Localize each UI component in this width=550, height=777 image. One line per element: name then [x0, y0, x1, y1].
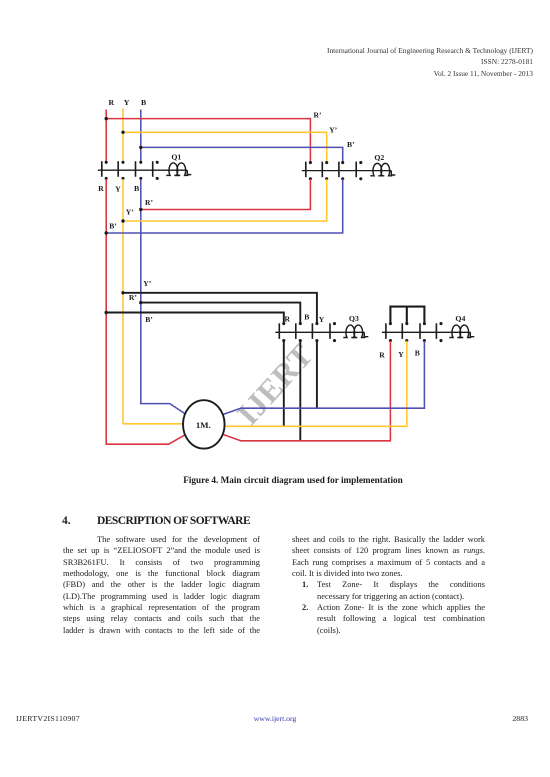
contactor Q3: linkage line [275, 331, 364, 333]
svg-text:R’: R’ [129, 293, 137, 302]
junction Y top [121, 131, 124, 134]
svg-text:Y: Y [124, 98, 130, 107]
contact terminal dot lower Q2 @x=342.7 [341, 177, 344, 180]
contactor Q2: contact bar 3 [338, 162, 340, 178]
contact terminal dot lower Q2 @x=360.8 [359, 177, 362, 180]
svg-text:B’: B’ [145, 315, 153, 324]
coil Q4 end terminal step [470, 332, 474, 336]
contactor Q1: contact bar 2 [117, 161, 119, 177]
svg-text:R: R [379, 351, 385, 360]
junction R top [105, 117, 108, 120]
contact terminal dot lower Q1 @x=123.0 [121, 177, 124, 180]
contact terminal dot upper Q2 @x=342.7 [341, 161, 344, 164]
right column paragraph [292, 534, 485, 636]
svg-text:R: R [285, 314, 291, 323]
figure caption [0, 475, 550, 485]
contactor Q1: linkage line [98, 169, 188, 171]
svg-text:Y: Y [115, 184, 121, 193]
contact terminal dot upper Q3 @x=316.9 [315, 322, 318, 325]
contact terminal dot upper Q3 @x=283.8 [282, 322, 285, 325]
coil Q3 [343, 325, 357, 337]
contactor Q1: contact bar 4 [152, 161, 154, 177]
wire B phase vertical upper [140, 110, 142, 162]
contact terminal dot upper Q2 @x=326.7 [325, 161, 328, 164]
left column paragraph [63, 534, 260, 636]
contact terminal dot lower Q2 @x=310.4 [309, 177, 312, 180]
junction B'' on R column [105, 311, 108, 314]
svg-text:B: B [141, 98, 146, 107]
svg-text:Q2: Q2 [374, 153, 384, 162]
svg-text:B’: B’ [109, 222, 117, 231]
header journal info [327, 45, 533, 81]
svg-text:B: B [415, 349, 420, 358]
svg-text:Q4: Q4 [455, 314, 465, 323]
svg-text:1M.: 1M. [196, 420, 211, 430]
contact terminal dot lower Q1 @x=140.8 [139, 177, 142, 180]
star-point bridge centre drop [406, 307, 408, 324]
contactor Q3: contact bar 2 [295, 323, 297, 339]
coil Q1 end terminal step [187, 170, 191, 174]
contactor Q3: contact bar 1 [278, 323, 280, 339]
contactor Q4: contact bar 3 [419, 323, 421, 339]
contactor Q1: contact bar 1 [101, 161, 103, 177]
coil Q2 [370, 163, 384, 175]
contact terminal dot upper Q1 @x=123.0 [121, 161, 124, 164]
svg-text:Y: Y [319, 315, 325, 324]
section heading [62, 515, 250, 527]
contact terminal dot upper Q4 @x=406.8 [405, 322, 408, 325]
contact terminal dot lower Q3 @x=334.5 [333, 339, 336, 342]
contact terminal dot upper Q2 @x=360.8 [359, 161, 362, 164]
contact terminal dot lower Q2 @x=326.7 [325, 177, 328, 180]
wire R column into motor [106, 434, 186, 444]
svg-text:IJERT: IJERT [229, 337, 320, 432]
contact terminal dot upper Q2 @x=310.4 [309, 161, 312, 164]
svg-text:R: R [98, 184, 104, 193]
junction R'' on B column [139, 301, 142, 304]
contact terminal dot upper Q3 @x=334.5 [333, 322, 336, 325]
wire B'' feeder from R column to Q3 [106, 313, 284, 324]
svg-text:Y: Y [398, 350, 404, 359]
wire Q3 pole2 to red motor line [299, 341, 301, 441]
contact terminal dot upper Q3 @x=300.3 [299, 322, 302, 325]
wire R from Q4 to motor [224, 341, 391, 441]
contact terminal dot upper Q4 @x=390.4 [389, 322, 392, 325]
contactor Q4: contact bar 1 [385, 323, 387, 339]
wire R to Q2 (R') [106, 119, 310, 162]
junction Y'' on Y column [121, 291, 124, 294]
coil Q1 [166, 163, 180, 175]
contact terminal dot lower Q4 @x=424.4 [423, 339, 426, 342]
contact terminal dot upper Q4 @x=424.4 [423, 322, 426, 325]
coil Q4 [449, 325, 463, 337]
contact terminal dot lower Q3 @x=300.3 [299, 339, 302, 342]
wire R'' feeder from B column to Q3 [141, 303, 300, 324]
contact terminal dot upper Q1 @x=140.8 [139, 161, 142, 164]
contact terminal dot upper Q1 @x=157.2 [156, 161, 159, 164]
footer [0, 713, 550, 715]
contact terminal dot lower Q1 @x=157.2 [156, 177, 159, 180]
contactor Q2: contact bar 1 [305, 162, 307, 178]
contactor Q4: linkage line [382, 331, 470, 333]
junction Y' on Y column [121, 219, 124, 222]
wire Q3 pole3 to blue motor line [316, 341, 318, 408]
svg-text:B’: B’ [347, 140, 355, 149]
wire B to Q2 (B') [141, 147, 343, 161]
wire Y phase vertical upper [122, 109, 124, 162]
wire R' return from Q2 to B column [141, 179, 311, 209]
svg-text:R’: R’ [145, 198, 153, 207]
contact terminal dot lower Q3 @x=316.9 [315, 339, 318, 342]
contactor Q3: contact bar 3 [311, 323, 313, 339]
svg-text:Y’: Y’ [329, 125, 337, 134]
wire B from Q4 to motor [223, 341, 424, 415]
junction B top [139, 146, 142, 149]
wire Q3 pole1 to yellow motor line [283, 341, 285, 426]
wire R phase vertical lower [105, 179, 107, 444]
contact terminal dot upper Q1 @x=106.2 [105, 161, 108, 164]
wire R phase vertical upper [105, 110, 107, 162]
contactor Q1: contact bar 3 [135, 161, 137, 177]
junction R' on B column [139, 208, 142, 211]
motor 1M [183, 400, 225, 448]
contact terminal dot upper Q4 @x=441.0 [439, 322, 442, 325]
wire B' return from Q2 to R column [106, 179, 343, 233]
contactor Q4: contact bar 4 [435, 323, 437, 339]
wire B phase vertical lower [140, 179, 142, 404]
svg-text:Y’: Y’ [143, 279, 151, 288]
contactor Q4: contact bar 2 [401, 323, 403, 339]
contactor Q3: contact bar 4 [329, 323, 331, 339]
contact terminal dot lower Q3 @x=283.8 [282, 339, 285, 342]
contact terminal dot lower Q4 @x=441.0 [439, 339, 442, 342]
wire Y from Q4 to motor [225, 341, 407, 426]
svg-text:Q1: Q1 [171, 152, 181, 161]
contactor Q2: linkage line [302, 170, 392, 172]
svg-text:R’: R’ [313, 110, 321, 119]
wire Y to Q2 (Y') [123, 132, 327, 161]
svg-text:B: B [304, 313, 309, 322]
coil Q2 end terminal step [391, 171, 395, 175]
star-point bridge over Q4 [390, 307, 424, 324]
wire Y' return from Q2 to Y column [123, 179, 327, 221]
junction B' on R column [105, 231, 108, 234]
contact terminal dot lower Q4 @x=406.8 [405, 339, 408, 342]
wire Y'' feeder from Y column to Q3 [123, 293, 317, 324]
contactor Q2: contact bar 4 [355, 162, 357, 178]
wire Y column into motor [123, 423, 183, 425]
svg-text:Q3: Q3 [349, 314, 359, 323]
svg-text:R: R [108, 98, 114, 107]
wire B column into motor [141, 403, 186, 415]
contact terminal dot lower Q1 @x=106.2 [105, 177, 108, 180]
contactor Q2: contact bar 2 [321, 162, 323, 178]
svg-text:B: B [134, 184, 139, 193]
contact terminal dot lower Q4 @x=390.4 [389, 339, 392, 342]
coil Q3 end terminal step [364, 332, 368, 336]
svg-text:Y’: Y’ [126, 208, 134, 217]
wire Y phase vertical lower [122, 179, 124, 424]
